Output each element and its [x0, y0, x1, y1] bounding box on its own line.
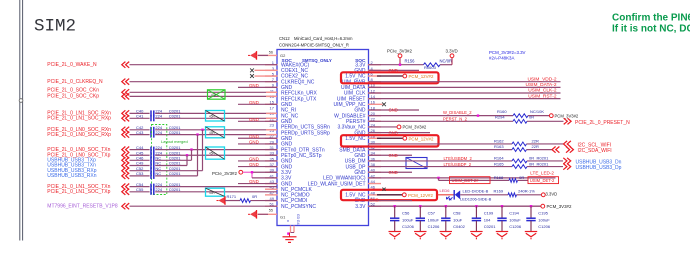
svg-text:LED1206-SIDE-B: LED1206-SIDE-B [460, 196, 492, 201]
svg-text:Confirm the PIN6: Confirm the PIN6 [612, 13, 690, 24]
svg-text:PCIE_2L_0_LN0_SOC_RXp: PCIE_2L_0_LN0_SOC_RXp [47, 132, 111, 138]
svg-text:R162: R162 [494, 138, 504, 143]
svg-text:LED_WLAN#_USIM_DET: LED_WLAN#_USIM_DET [308, 181, 366, 187]
svg-text:PCIe_3V3#2: PCIe_3V3#2 [212, 171, 237, 176]
svg-text:PCM_12V#2: PCM_12V#2 [408, 193, 433, 198]
svg-text:C194: C194 [509, 211, 519, 216]
svg-text:LED6: LED6 [440, 188, 451, 193]
svg-text:NC/10K: NC/10K [530, 109, 544, 114]
svg-text:R0201: R0201 [537, 161, 550, 166]
svg-text:R165: R165 [494, 161, 504, 166]
svg-text:#2A-P48K3A: #2A-P48K3A [489, 55, 514, 60]
svg-text:R169: R169 [494, 189, 504, 194]
svg-text:LTE/USBDM_2: LTE/USBDM_2 [444, 156, 473, 161]
svg-text:3.3V: 3.3V [355, 204, 366, 210]
svg-text:USIM_DET-2: USIM_DET-2 [530, 178, 555, 183]
no-connect X pin 3 [255, 69, 278, 71]
svg-text:PCM_3V3#2=3.3V: PCM_3V3#2=3.3V [489, 50, 526, 55]
net I2C_SDA_WIFI with resistor R163 [369, 149, 513, 151]
no-connect X pin 46 [382, 188, 385, 191]
net PCM_12V#2 on pin 28 [377, 137, 403, 139]
svg-text:0R: 0R [519, 175, 524, 180]
net W_DISABLE_2 with resistor R160 [369, 115, 514, 117]
net PCIE_2L_0_LN0_SOC_TXp with capacitor C45 [122, 152, 126, 158]
highlight box pin 28 [341, 135, 439, 146]
svg-text:PCM_3V3#2: PCM_3V3#2 [555, 113, 579, 118]
pin 56 shield arrow [256, 51, 258, 60]
svg-text:C53: C53 [136, 171, 144, 176]
DNI box on LN1 TX pair [206, 188, 225, 196]
svg-text:100uF: 100uF [428, 217, 440, 222]
svg-text:USIM_DATA-2: USIM_DATA-2 [525, 82, 556, 88]
svg-text:C0402: C0402 [453, 224, 466, 229]
svg-text:R163: R163 [494, 144, 504, 149]
net USBHUB_USB3_RXp with capacitor C52 (NC) [122, 168, 126, 174]
svg-text:25: 25 [270, 128, 275, 133]
svg-text:G1: G1 [280, 215, 286, 220]
svg-text:C0201: C0201 [169, 171, 182, 176]
highlight box pin 6 [341, 72, 439, 83]
net PCIE_2L_0_LN1_SOC_TXn with capacitor C54 [122, 184, 126, 190]
svg-text:17: 17 [270, 105, 275, 110]
svg-text:PERST_N_2: PERST_N_2 [443, 117, 468, 122]
DNI box on LN0 RX pair [206, 127, 225, 138]
svg-text:LTE/USBDP_2: LTE/USBDP_2 [444, 162, 472, 167]
svg-text:56: 56 [269, 51, 273, 55]
pin 55 shield arrow [256, 210, 258, 219]
junction TX0n to USB TXp [190, 148, 192, 150]
svg-text:C1206: C1206 [538, 224, 551, 229]
svg-text:C0201: C0201 [169, 145, 182, 150]
svg-text:240R-1%: 240R-1% [518, 189, 535, 194]
LED D6 LED-DIODE-B [438, 194, 454, 196]
svg-text:0R: 0R [529, 115, 534, 120]
svg-text:C0201: C0201 [484, 224, 497, 229]
svg-text:C41: C41 [136, 114, 144, 119]
net PCIE_2L_0_SOC_CKp [122, 93, 126, 99]
net PCM_12V#2 on pin 48 [377, 194, 402, 196]
net PCIE_2L_0_LN0_SOC_TXn with capacitor C44 [122, 147, 126, 153]
ground below connector [289, 233, 291, 237]
net USBHUB_USB3_TXn with capacitor C49 (NC) [122, 162, 126, 168]
junction TX0p to USB TXn [186, 154, 188, 156]
ground for C58 [440, 231, 452, 233]
power terminal 3.3VD right [541, 193, 545, 197]
svg-text:45R: 45R [209, 115, 216, 119]
svg-text:3.3VD: 3.3VD [546, 192, 558, 197]
svg-text:44: 44 [371, 179, 376, 184]
svg-text:If it is not NC, DC: If it is not NC, DC [612, 24, 690, 35]
svg-text:GND: GND [249, 162, 259, 167]
svg-text:C199: C199 [484, 211, 494, 216]
svg-text:GND: GND [249, 179, 259, 184]
svg-text:PCM_3V3#2: PCM_3V3#2 [403, 125, 427, 130]
svg-text:C57: C57 [428, 211, 436, 216]
pin 34 GND stub [369, 154, 413, 156]
svg-text:GND: GND [249, 83, 259, 88]
svg-text:USIM_RST-2: USIM_RST-2 [528, 93, 557, 99]
net PCIE_2L_0_SOC_CKn [122, 89, 126, 95]
net PCIE_2L_0_CLKREQ_N [122, 79, 126, 85]
svg-text:224: 224 [155, 187, 162, 192]
svg-text:GND: GND [249, 134, 259, 139]
svg-text:48: 48 [371, 190, 376, 195]
connector mounting pin stubs G3 G4 [290, 226, 292, 233]
capacitor C58 10uF [445, 205, 447, 207]
sheet border line [19, 0, 21, 241]
left GND stub pins [238, 86, 277, 88]
svg-text:PCIE_2L_0_WAKE_N: PCIE_2L_0_WAKE_N [47, 62, 97, 68]
svg-text:C44: C44 [136, 145, 144, 150]
junction RX0n to USB RXp [201, 129, 203, 131]
svg-text:22R: 22R [532, 144, 539, 149]
net USBHUB_USB3_Dn with resistor R164 [369, 160, 513, 162]
capacitor C194 100uF [501, 205, 503, 207]
svg-text:45R: 45R [209, 131, 216, 135]
svg-text:23: 23 [270, 122, 275, 127]
svg-text:224: 224 [155, 130, 162, 135]
capacitor C199 104 [475, 205, 477, 207]
svg-text:GND: GND [389, 170, 398, 175]
DNI box on USB_DM/USB_DP pair [406, 158, 427, 169]
svg-text:C0201: C0201 [169, 187, 182, 192]
svg-text:LED-DIODE-B: LED-DIODE-B [463, 188, 489, 193]
svg-text:C56: C56 [402, 211, 410, 216]
svg-text:C55: C55 [136, 187, 144, 192]
svg-text:1.5V_NC: 1.5V_NC [345, 136, 366, 142]
power rail pin 2 3.3V [369, 64, 424, 66]
svg-text:104: 104 [484, 217, 491, 222]
capacitor C195 100uF [530, 205, 532, 207]
svg-text:GND: GND [389, 153, 398, 158]
resistor R169 240R-1% [460, 194, 508, 196]
resistor R171 on pin 49 [224, 196, 226, 205]
ground for C199 [470, 231, 482, 233]
svg-text:G3 G4: G3 G4 [296, 214, 300, 225]
layout merged group box [152, 125, 167, 195]
net LTE_LED-2 on pin 42 [369, 177, 556, 179]
svg-text:USBHUB_USB3_RXn: USBHUB_USB3_RXn [47, 173, 96, 179]
net USBHUB_USB3_Dp with resistor R165 [369, 166, 513, 168]
svg-text:C58: C58 [453, 211, 461, 216]
svg-text:NC_PCMSYNC: NC_PCMSYNC [281, 204, 316, 210]
net PCIE_2L_0_WAKE_N [122, 62, 126, 68]
net USIM_DET-2 with resistor R168 [439, 179, 510, 181]
svg-text:C1206: C1206 [402, 224, 415, 229]
power terminal PCIe_3V3#2 top [399, 58, 401, 65]
svg-text:SIM2: SIM2 [34, 17, 76, 37]
svg-text:NC/0R: NC/0R [440, 58, 453, 63]
net PCIE_2L_0_LN0_SOC_RXp with capacitor C43 [122, 132, 126, 138]
svg-text:GND: GND [249, 156, 259, 161]
svg-text:3.3VD: 3.3VD [446, 49, 458, 54]
svg-text:0R: 0R [252, 194, 257, 199]
svg-text:LTE_LED-2: LTE_LED-2 [530, 171, 554, 176]
svg-text:47: 47 [270, 190, 275, 195]
pin 40 GND stub [369, 171, 413, 173]
power rail pin 52 3.3V to PCM_3V3#2 [369, 205, 542, 207]
svg-text:0R: 0R [529, 156, 534, 161]
svg-text:100uF: 100uF [402, 217, 414, 222]
net PCIE_2L_0_LN1_SOC_RXp with capacitor C41 [122, 115, 126, 121]
power terminal PCM_3V3#2 on pin 24 [369, 126, 398, 128]
ground for C194 [496, 231, 508, 233]
svg-text:R164: R164 [494, 156, 504, 161]
svg-text:R168: R168 [494, 175, 504, 180]
svg-text:45R: 45R [209, 191, 216, 195]
net I2C_SCL_WIFI with resistor R162 [369, 143, 513, 145]
DNI filter box on REFCLK pair [208, 90, 226, 99]
net PCIE_2L_0_LN1_SOC_TXp with capacitor C55 [122, 189, 126, 195]
svg-text:R160: R160 [497, 109, 507, 114]
svg-text:R294: R294 [495, 115, 505, 120]
svg-text:NC: NC [155, 171, 161, 176]
highlight box pin 48 [341, 190, 437, 200]
net PCIE_2L_0_LN0_SOC_RXn with capacitor C42 [122, 127, 126, 133]
connector CN12 body [277, 50, 369, 226]
svg-text:CN12: CN12 [279, 36, 290, 41]
net PERST_N_2 with resistor R294 [369, 120, 514, 122]
svg-text:GND: GND [249, 100, 259, 105]
pin 26 GND stub [369, 132, 431, 134]
svg-text:PCM_12V#2: PCM_12V#2 [409, 74, 434, 79]
capacitor C56 100uF [394, 205, 396, 207]
svg-text:C0201: C0201 [169, 114, 182, 119]
junction dot below connector [287, 232, 289, 234]
svg-text:R0603: R0603 [424, 65, 437, 70]
junction on LED net [437, 177, 439, 179]
ground for C195 [525, 231, 537, 233]
svg-text:R0201: R0201 [537, 156, 550, 161]
svg-text:MiniCard_Card_Host,H=6.2mm: MiniCard_Card_Host,H=6.2mm [294, 36, 353, 41]
svg-text:USIM_DET-2#: USIM_DET-2# [452, 178, 480, 183]
svg-text:C0201: C0201 [169, 130, 182, 135]
net PCIe_12V#2 on pin 6 [377, 75, 403, 77]
svg-text:MT7996_EINT_RESETB_V1P8: MT7996_EINT_RESETB_V1P8 [47, 204, 118, 210]
power terminal 3.3VD top [451, 58, 453, 65]
net USBHUB_USB3_RXn with capacitor C53 (NC) [122, 173, 126, 179]
svg-text:PCM_12V#2: PCM_12V#2 [409, 136, 434, 141]
svg-text:10uF: 10uF [453, 217, 463, 222]
net MT7996_EINT_RESETB_V1P8 [122, 203, 126, 209]
svg-text:22R: 22R [532, 138, 539, 143]
svg-text:PCIE_2L_0_LN1_SOC_TXp: PCIE_2L_0_LN1_SOC_TXp [47, 189, 110, 195]
capacitor C57 100uF [419, 205, 421, 207]
svg-text:CONN2G4-MPCIE-SMTSQ_ONLY_R: CONN2G4-MPCIE-SMTSQ_ONLY_R [279, 43, 349, 48]
svg-text:R156: R156 [405, 58, 416, 63]
svg-text:GND: GND [370, 198, 379, 203]
connector left pin stubs [265, 64, 278, 66]
svg-text:100uF: 100uF [509, 217, 521, 222]
svg-text:I2C_SDA_WIFI: I2C_SDA_WIFI [578, 148, 612, 154]
connector right pin stubs [368, 64, 381, 66]
resistor R156 NC/0R [424, 63, 441, 67]
svg-text:PCIE_2L_0_PRESET_N: PCIE_2L_0_PRESET_N [575, 120, 630, 126]
net PCIE_2L_0_LN1_SOC_RXn with capacitor C40 [122, 110, 126, 116]
svg-text:0R: 0R [529, 161, 534, 166]
pin 4 GND stub [369, 69, 420, 71]
DNI box on LN1 RX pair [206, 111, 225, 122]
svg-text:GND: GND [249, 117, 259, 122]
svg-text:100uF: 100uF [538, 217, 550, 222]
pin 50 GND stub [369, 200, 413, 202]
svg-text:55: 55 [269, 209, 273, 213]
svg-text:16: 16 [371, 100, 376, 105]
DNI box on LN0 TX pair [206, 147, 225, 159]
svg-text:Layout merged: Layout merged [161, 139, 188, 144]
svg-text:*: * [287, 220, 289, 226]
svg-text:W_DISABLE_2: W_DISABLE_2 [443, 110, 472, 115]
UIM wires pins 8-14 [369, 81, 561, 83]
svg-text:45R: 45R [209, 152, 216, 156]
svg-text:USIM_VDD-2: USIM_VDD-2 [527, 76, 556, 82]
svg-text:C43: C43 [136, 130, 144, 135]
svg-text:PCIE_2L_0_SOC_CKn: PCIE_2L_0_SOC_CKn [47, 87, 99, 93]
no-connect X pin 5 [255, 75, 278, 77]
svg-text:USBHUB_USB3_Dp: USBHUB_USB3_Dp [576, 165, 622, 171]
svg-text:47p: 47p [211, 93, 217, 97]
svg-text:USIM_CLK-2: USIM_CLK-2 [528, 88, 557, 94]
svg-text:224: 224 [155, 114, 162, 119]
svg-text:PCIe_3V3#2: PCIe_3V3#2 [387, 49, 412, 54]
svg-text:C1206: C1206 [428, 224, 441, 229]
ground for C56 [389, 231, 401, 233]
ground for C57 [414, 231, 426, 233]
svg-text:G2: G2 [280, 53, 286, 58]
svg-text:GND: GND [389, 108, 398, 113]
svg-text:PCIE_2L_0_SOC_CKp: PCIE_2L_0_SOC_CKp [47, 94, 99, 100]
svg-text:PCIE_2L_0_CLKREQ_N: PCIE_2L_0_CLKREQ_N [47, 79, 103, 85]
pin 18 GND stub [369, 109, 420, 111]
svg-text:GND: GND [249, 139, 259, 144]
junction RX0p to USB RXn [196, 133, 198, 135]
no-connect X pin 16 [382, 102, 386, 106]
svg-text:PCM_3V3#2: PCM_3V3#2 [547, 204, 572, 209]
svg-text:C195: C195 [538, 211, 548, 216]
svg-text:PCIE_2L_0_LN1_SOC_RXp: PCIE_2L_0_LN1_SOC_RXp [47, 116, 111, 122]
svg-text:224: 224 [155, 145, 162, 150]
net USBHUB_USB3_TXp with capacitor C46 (NC) [122, 157, 126, 163]
svg-text:C1206: C1206 [509, 224, 522, 229]
svg-text:R171: R171 [227, 194, 237, 199]
